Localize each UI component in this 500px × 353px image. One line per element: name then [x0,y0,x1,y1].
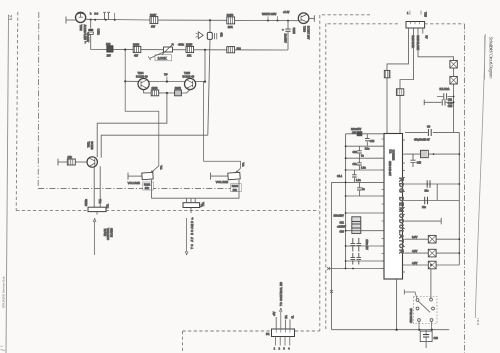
svg-text:10k: 10k [187,53,192,57]
wire earphone to lower net [208,39,210,135]
svg-text:C81: C81 [340,221,345,224]
svg-text:40R: 40R [220,33,222,38]
svg-text:BC328: BC328 [90,142,94,150]
svg-text:47u/16V: 47u/16V [86,33,90,43]
right bus [458,132,460,265]
svg-text:1: 1 [274,349,276,351]
module boundary dashed top inner [328,23,465,25]
test point tick [114,13,116,20]
arrow from control board [93,218,96,255]
node on rail1 [114,19,116,21]
connector to AV board [183,203,200,208]
page left edge line [6,17,9,353]
svg-text:4k7: 4k7 [134,53,139,57]
capacitor C1.1 [353,170,355,182]
node emitter mid [166,92,168,94]
svg-text:3: 3 [283,349,285,351]
svg-text:GRUNDIG Service-Dok.: GRUNDIG Service-Dok. [2,276,6,308]
wire TR5 pin2 to IC [400,28,414,134]
node [453,96,455,98]
node [345,182,347,184]
svg-text:TP1: TP1 [98,199,101,204]
connector TR5 [406,22,425,29]
svg-text:22n: 22n [422,206,427,209]
resistor R255 [186,46,194,52]
resistor R41 [428,235,436,243]
row wire 4 [346,169,384,171]
node [418,329,420,331]
page corner dash marks [1,346,6,351]
left module bus wire [331,182,333,329]
svg-text:3n: 3n [361,155,364,158]
svg-text:DA: DA [285,315,288,319]
row wire 2 [346,145,384,147]
node [431,329,433,331]
svg-text:VOLUME: VOLUME [128,181,140,185]
svg-text:3.3n: 3.3n [365,148,370,151]
resistor on pin1 wire [384,70,390,77]
svg-text:C9: C9 [427,125,431,128]
node terminal left of T202 [65,17,67,24]
node [345,195,347,197]
svg-text:RDG DEMODULATOR: RDG DEMODULATOR [398,178,404,254]
capacitor C12 [357,131,363,136]
svg-text:CA3221E: CA3221E [392,150,395,161]
wire switch feed [430,269,432,299]
resistor R207 on rail1 [150,17,158,24]
row wire 5 [332,181,385,183]
svg-text:b: b [90,12,92,16]
node [345,169,347,171]
resistor R256 1k3 [227,47,235,53]
switch lever [418,301,430,312]
svg-text:TP: TP [164,73,168,77]
potentiometer R203 volume right [210,173,212,180]
svg-text:220u/25V: 220u/25V [351,128,362,131]
electrolytic C81 [352,217,361,234]
svg-text:+: + [282,28,284,32]
resistor R302 [450,76,457,84]
switch feed terminal [404,289,417,298]
capacitor C19 below rail [420,331,432,342]
transistor T201 BC328 [87,157,97,167]
svg-text:BC327 10V: BC327 10V [307,26,311,40]
test point TP [166,77,168,82]
node [345,245,347,247]
resistor R258 [151,90,159,96]
link wire [436,184,438,201]
transistor T204 BC238 [138,78,149,89]
module boundary dashed bottom center [183,330,320,332]
module boundary dashed right [464,24,466,353]
trimmer lead [148,52,163,60]
wire TR5 pin4 stub [422,28,424,34]
svg-text:C121: C121 [97,29,101,36]
node [345,260,347,262]
node [267,20,269,22]
node [396,329,398,331]
capacitor C127 [425,197,428,205]
resistor R42 [428,249,436,257]
node [458,183,460,185]
left column bus [345,134,347,269]
tick on left bus [330,290,333,293]
svg-text:R257: R257 [150,13,157,17]
node [345,212,347,214]
capacitor C121 [90,20,92,29]
svg-text:23: 23 [6,15,12,21]
svg-text:1k8: 1k8 [106,42,111,46]
wire rail2 node down to volume feed [125,50,159,173]
capacitor C83 pair [351,253,356,265]
svg-text:PR: PR [266,333,270,336]
capacitor C10 [423,100,425,106]
node [458,238,460,240]
svg-text:C205: C205 [292,28,296,35]
svg-text:J: J [199,204,202,208]
svg-text:T202: T202 [79,25,83,32]
svg-text:10R: 10R [228,25,233,29]
arrow to AV board [185,218,188,255]
svg-text:C1.1: C1.1 [337,175,343,178]
svg-text:100u/16V: 100u/16V [334,215,345,218]
node terminal left of T201 [57,159,59,166]
tick on ground rail [327,267,330,270]
svg-text:RGB DATA: RGB DATA [411,36,414,49]
svg-text:22n: 22n [425,189,430,192]
svg-text:R255: R255 [186,43,193,47]
module boundary dashed left [16,12,18,211]
svg-text:1.8n: 1.8n [361,167,366,170]
svg-text:2W: 2W [107,54,111,58]
capacitor C30 [358,146,360,158]
svg-text:Schaltbild / Circuit Diagram: Schaltbild / Circuit Diagram [489,37,494,79]
node rail2 x205 [204,49,206,51]
trimmer label box 100K [155,55,172,61]
ground rail under IC [328,268,384,270]
svg-text:400k: 400k [178,43,184,47]
wire pin up with label [275,317,277,329]
svg-text:TO CONTROL BD: TO CONTROL BD [280,282,283,306]
svg-text:1n: 1n [362,188,365,191]
node [453,101,455,103]
resistor R252 [133,46,141,52]
wire to base resistor [58,161,67,163]
node [345,157,347,159]
svg-text:5V: 5V [425,36,428,39]
row wire pin top [346,133,384,135]
resistor R40 [421,150,429,157]
wire resistor to T201 [75,161,87,163]
svg-text:4.8V: 4.8V [412,261,418,265]
row wire 7 [346,212,384,214]
connector TR5 top ticks [410,11,421,15]
row C wire [405,200,459,202]
wire rail1 [86,18,150,21]
top row wire [405,131,459,133]
resistor R251 1k8 [107,46,113,52]
svg-text:31kHz: 31kHz [85,198,88,206]
svg-text:C10: C10 [448,105,453,108]
node [352,268,354,270]
wire pots to connector rail [152,180,239,198]
capacitor C205 [287,21,289,29]
wire earphone net to BC328 [101,135,208,157]
node base rail right [204,81,206,83]
row D lead with terminal [405,218,441,225]
svg-text:TOL: TOL [202,201,205,206]
IC pins left [382,139,384,269]
earphone cap marks [215,33,217,39]
wire base rail [125,80,205,82]
IC1 RGB demodulator [384,134,403,280]
transistor T202 AC128 [76,12,86,22]
pin stub CL [289,320,291,330]
row A wire [405,153,459,155]
node at earphone [209,19,211,21]
svg-text:TOL: TOL [107,203,110,208]
capacitor above rail1 [103,12,110,19]
svg-text:TOL: TOL [161,165,163,170]
wire IC bottom to ground bus [396,279,398,330]
node [345,268,347,270]
node on rail1 [90,19,92,21]
svg-text:KTL/TDA: KTL/TDA [440,88,450,91]
wire T201 down pair [94,166,100,207]
node on rail1 [94,19,96,21]
resistor R260 [175,90,182,96]
wire rail1 left [66,19,76,21]
node on rail1 [105,19,107,21]
svg-text:BC238 40: BC238 40 [183,74,195,78]
capacitor C15 [410,154,415,167]
connector 31kHz output [88,207,106,211]
net label WRITE [268,16,278,20]
wire earphone drop [209,20,211,32]
arrow to control board [280,308,283,329]
wire rail1 mid [158,19,227,21]
resistor on pin2 wire [396,89,403,96]
IC pins right [403,140,406,272]
svg-text:C15: C15 [417,162,422,165]
capacitor C126 [427,180,430,188]
wire emitter node to BC328 base [97,93,167,157]
capacitor C13 [366,134,368,146]
svg-text:10k: 10k [233,188,238,192]
svg-text:R253: R253 [133,43,140,47]
node [430,264,432,266]
row wire 9 [346,245,384,247]
node [287,20,289,22]
wire emitter rail [144,90,191,93]
pin stub DA [284,320,286,330]
resistor R201 10k [67,159,75,165]
capacitor C9 [428,129,431,136]
svg-text:1: 1 [407,12,409,15]
svg-text:2: 2 [279,349,281,351]
svg-text:TR5: TR5 [424,12,427,17]
svg-text:B 141: B 141 [476,318,480,325]
page curl edge line [475,34,485,318]
svg-text:C80: C80 [340,230,345,233]
svg-text:1.8n: 1.8n [356,179,361,182]
earphone body [207,32,212,39]
node [277,20,279,22]
bottom rail [332,329,450,331]
svg-text:4389-040-007: 4389-040-007 [388,161,391,177]
svg-text:VOLUME: VOLUME [216,180,228,184]
wire rail2 to base rail [204,50,206,82]
potentiometer R202 volume left [127,173,129,180]
svg-text:C13: C13 [370,140,375,143]
module boundary dash-dot horizontal [38,188,236,190]
node terminal right of T203 [313,15,315,21]
module boundary dashed top outer [322,14,372,16]
svg-text:100K: 100K [158,55,168,60]
transistor T203 BC327 [298,13,309,24]
svg-text:R203: R203 [232,184,239,188]
svg-text:10k: 10k [145,186,150,190]
wire TR5 pin1 to IC [387,28,409,134]
svg-text:3: 3 [192,217,194,221]
svg-text:BC238 40: BC238 40 [136,74,148,78]
svg-text:1W: 1W [151,25,155,29]
node base rail left [124,80,126,82]
wire base rail to right volume feed [204,82,241,173]
svg-text:WRITE 0/5V: WRITE 0/5V [262,12,277,16]
svg-text:TOL: TOL [243,162,245,167]
row wire 3 [346,157,384,159]
svg-text:+5V: +5V [273,311,276,316]
wire TR5 pin3 right [418,28,454,132]
svg-text:470pF/+250 S7: 470pF/+250 S7 [414,139,430,141]
svg-text:100R: 100R [152,87,158,90]
svg-text:IC1: IC1 [389,150,392,155]
capacitor C82 pair [351,238,356,252]
wire switch to rail [419,321,432,329]
svg-text:BOARD: BOARD [110,228,113,237]
node rail2 x125 [124,49,126,51]
wire to end terminal [309,17,314,19]
row B wire [405,183,459,185]
svg-text:R259: R259 [227,13,234,17]
svg-text:T203: T203 [303,26,307,32]
svg-text:4.8V: 4.8V [412,249,418,253]
svg-text:100u 25V: 100u 25V [365,240,368,251]
row wire 10 [346,260,384,262]
svg-text:C19: C19 [434,337,439,340]
module boundary dashed vertical x320 [319,15,321,331]
module boundary dash-dot left [37,12,40,189]
row F wire [405,252,459,254]
capacitor C11 [437,96,454,98]
svg-text:R202: R202 [144,183,151,187]
svg-text:1-b: 1-b [94,12,98,16]
row wire 8 [346,230,384,232]
svg-text:C7a: C7a [353,163,358,166]
svg-text:T201: T201 [87,142,91,148]
resistor R209 on rail1 [227,17,235,24]
module boundary dashed vertical x326 [325,24,327,332]
svg-text:47266-740.01: 47266-740.01 [410,308,413,323]
trimmer R254 volume preset [164,47,173,52]
wire rail2 [91,49,288,52]
node [458,252,460,254]
svg-text:C12: C12 [352,131,357,134]
capacitor C7a [358,158,360,170]
row wire 6 [346,195,384,197]
svg-text:4: 4 [288,349,290,351]
connector pins down [275,337,289,346]
speaker triangle [198,32,203,39]
resistor R301 [450,60,457,68]
connector to control board [272,329,295,337]
svg-text:+10/16V: +10/16V [337,226,346,229]
module boundary dashed bottom [16,210,319,212]
svg-text:10k: 10k [68,155,73,159]
resistor R43 [428,261,436,269]
svg-text:+7.4V: +7.4V [283,11,290,14]
svg-text:RGB BLANK: RGB BLANK [416,36,419,51]
switch S1 assembly [414,297,438,324]
node [345,230,347,232]
row G wire [405,264,459,266]
svg-text:1k3: 1k3 [237,47,242,51]
svg-text:CL: CL [293,315,295,319]
transistor T205 BC238 [185,78,196,89]
node [458,153,460,155]
wire rail1 right [235,19,299,21]
node [345,145,347,147]
row E wire [405,238,459,240]
svg-text:100R: 100R [175,87,181,90]
svg-text:0.6V: 0.6V [412,235,418,239]
node between transistors [166,80,168,82]
svg-text:C30: C30 [353,151,358,154]
node [433,153,435,155]
Schaltbild side text underline [484,36,486,80]
capacitor C4 [358,182,360,196]
svg-text:10u/25V: 10u/25V [284,34,287,44]
module boundary dashed vertical x182 [182,331,184,353]
